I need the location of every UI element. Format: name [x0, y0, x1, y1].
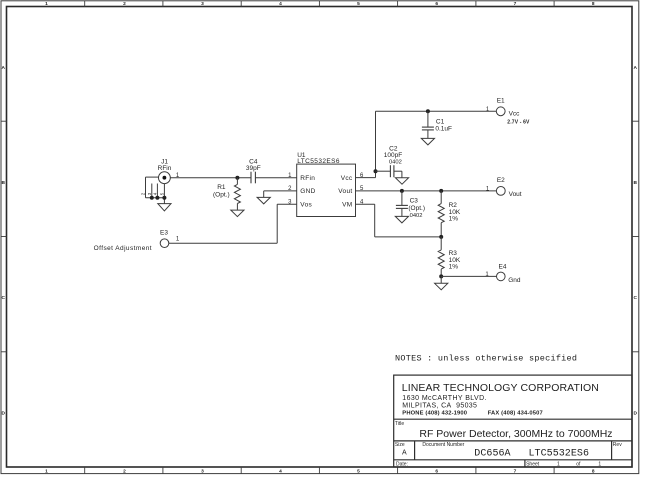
node Vout R2 junction [439, 189, 443, 193]
svg-text:2: 2 [141, 192, 146, 195]
wire VM net U1 pin4 [356, 204, 442, 237]
svg-text:5: 5 [357, 1, 360, 7]
svg-text:1: 1 [486, 186, 490, 192]
svg-text:E4: E4 [499, 264, 507, 271]
svg-text:Vcc: Vcc [341, 175, 353, 182]
resistor R2 [438, 191, 461, 237]
svg-text:FAX (408) 434-0507: FAX (408) 434-0507 [488, 411, 543, 417]
op-amp U1 LTC5532ES6 [288, 152, 364, 216]
svg-text:39pF: 39pF [246, 165, 261, 172]
svg-text:C: C [1, 295, 5, 301]
node RFin junction [235, 176, 239, 180]
svg-text:7: 7 [514, 1, 517, 7]
svg-text:NOTES : unless otherwise speci: NOTES : unless otherwise specified [395, 354, 577, 364]
svg-text:4: 4 [279, 468, 282, 474]
svg-text:E1: E1 [497, 98, 505, 105]
svg-text:3: 3 [201, 468, 204, 474]
notes text [395, 354, 577, 364]
connector E2 Vout [486, 177, 522, 198]
wire Vout net U1 pin5 to E2 [356, 190, 497, 192]
svg-text:LINEAR TECHNOLOGY CORPORATION: LINEAR TECHNOLOGY CORPORATION [402, 382, 599, 394]
svg-text:1: 1 [45, 468, 48, 474]
resistor R3 [438, 237, 461, 277]
svg-text:Date:: Date: [396, 461, 408, 467]
svg-text:1: 1 [485, 272, 489, 278]
svg-text:4: 4 [153, 192, 158, 195]
title block [394, 375, 632, 467]
svg-text:1: 1 [176, 237, 180, 243]
svg-text:1: 1 [486, 107, 490, 113]
svg-text:1630 McCARTHY BLVD.: 1630 McCARTHY BLVD. [402, 395, 487, 402]
svg-text:2.7V - 6V: 2.7V - 6V [507, 120, 530, 126]
svg-text:PHONE (408) 432-1900: PHONE (408) 432-1900 [402, 411, 467, 417]
connector E3 Offset Adjustment [94, 230, 180, 252]
svg-text:8: 8 [592, 1, 595, 7]
svg-text:100pF: 100pF [384, 152, 402, 159]
wire Vos net U1 pin3 to E3 [169, 204, 297, 243]
svg-text:RFin: RFin [300, 175, 315, 182]
node Vcc C2 junction [374, 169, 378, 173]
svg-text:1: 1 [45, 1, 48, 7]
capacitor C1 [422, 111, 452, 138]
wire RFin net J1 to U1 pin1 [170, 177, 296, 179]
ground under R1 [231, 210, 244, 217]
node VM junction [439, 235, 443, 239]
svg-text:C: C [633, 295, 637, 301]
svg-text:RF Power Detector, 300MHz to 7: RF Power Detector, 300MHz to 7000MHz [419, 428, 612, 440]
svg-text:VM: VM [342, 202, 352, 209]
svg-text:Sheet: Sheet [526, 461, 540, 467]
svg-text:Offset Adjustment: Offset Adjustment [94, 245, 152, 252]
svg-text:3: 3 [147, 192, 152, 195]
svg-text:0402: 0402 [410, 213, 423, 219]
connector E4 Gnd [485, 264, 521, 284]
ground under R3 [435, 283, 448, 290]
node Gnd junction [439, 274, 443, 278]
svg-text:A: A [633, 65, 637, 71]
ground under J1 [158, 204, 171, 211]
svg-text:RFin: RFin [158, 165, 172, 172]
svg-text:E3: E3 [160, 230, 168, 237]
svg-text:(Opt.): (Opt.) [213, 191, 230, 198]
svg-text:4: 4 [279, 1, 282, 7]
node Vcc C1 junction [426, 109, 430, 113]
wire Gnd net to E4 [441, 276, 496, 283]
svg-text:MILPITAS, CA 95035: MILPITAS, CA 95035 [402, 403, 477, 410]
svg-text:1%: 1% [449, 216, 459, 223]
svg-text:Vcc: Vcc [509, 111, 521, 118]
svg-text:6: 6 [435, 468, 438, 474]
svg-text:Document Number: Document Number [422, 442, 464, 448]
svg-text:6: 6 [435, 1, 438, 7]
svg-text:LTC5532ES6: LTC5532ES6 [297, 158, 340, 165]
svg-text:D: D [633, 410, 637, 416]
svg-text:C1: C1 [436, 118, 445, 125]
ground under C3 [395, 216, 408, 223]
capacitor C2 [376, 146, 403, 178]
capacitor C4 [246, 159, 261, 184]
ground under C1 [421, 138, 434, 145]
svg-text:Title: Title [395, 421, 404, 427]
svg-text:R1: R1 [217, 184, 226, 191]
svg-text:E2: E2 [497, 177, 505, 184]
svg-text:B: B [633, 180, 637, 186]
resistor R1 [213, 178, 240, 210]
svg-text:A: A [402, 450, 407, 457]
svg-text:0402: 0402 [389, 159, 402, 165]
svg-text:C3: C3 [410, 198, 419, 205]
svg-text:1: 1 [598, 461, 601, 467]
svg-text:7: 7 [514, 468, 517, 474]
svg-text:Vout: Vout [509, 191, 522, 198]
wire Vcc net [356, 111, 497, 177]
svg-text:Vos: Vos [300, 202, 312, 209]
svg-text:8: 8 [592, 468, 595, 474]
svg-text:1: 1 [557, 461, 560, 467]
ground at U1 pin2 [257, 197, 270, 204]
svg-text:B: B [1, 180, 5, 186]
capacitor C3 [396, 191, 425, 219]
connector J1 [141, 159, 180, 204]
connector E1 Vcc [486, 98, 530, 126]
svg-text:5: 5 [160, 192, 165, 195]
svg-text:of: of [576, 461, 581, 467]
svg-text:Size: Size [395, 442, 405, 448]
svg-text:LTC5532ES6: LTC5532ES6 [529, 449, 590, 460]
svg-text:D: D [1, 410, 5, 416]
svg-text:2: 2 [123, 1, 126, 7]
svg-text:Rev: Rev [613, 442, 622, 448]
svg-text:A: A [1, 65, 5, 71]
svg-text:DC656A: DC656A [474, 449, 510, 460]
svg-text:GND: GND [300, 188, 315, 195]
ground at C2 [395, 178, 408, 185]
svg-text:Gnd: Gnd [508, 277, 521, 284]
wire U1 pin2 to ground [264, 191, 297, 197]
svg-text:1%: 1% [449, 264, 459, 271]
svg-text:(Opt.): (Opt.) [408, 205, 425, 212]
svg-text:Vout: Vout [338, 188, 352, 195]
svg-text:3: 3 [201, 1, 204, 7]
svg-text:0.1uF: 0.1uF [435, 126, 452, 133]
svg-text:5: 5 [357, 468, 360, 474]
svg-text:2: 2 [123, 468, 126, 474]
node Vout C3 junction [400, 189, 404, 193]
